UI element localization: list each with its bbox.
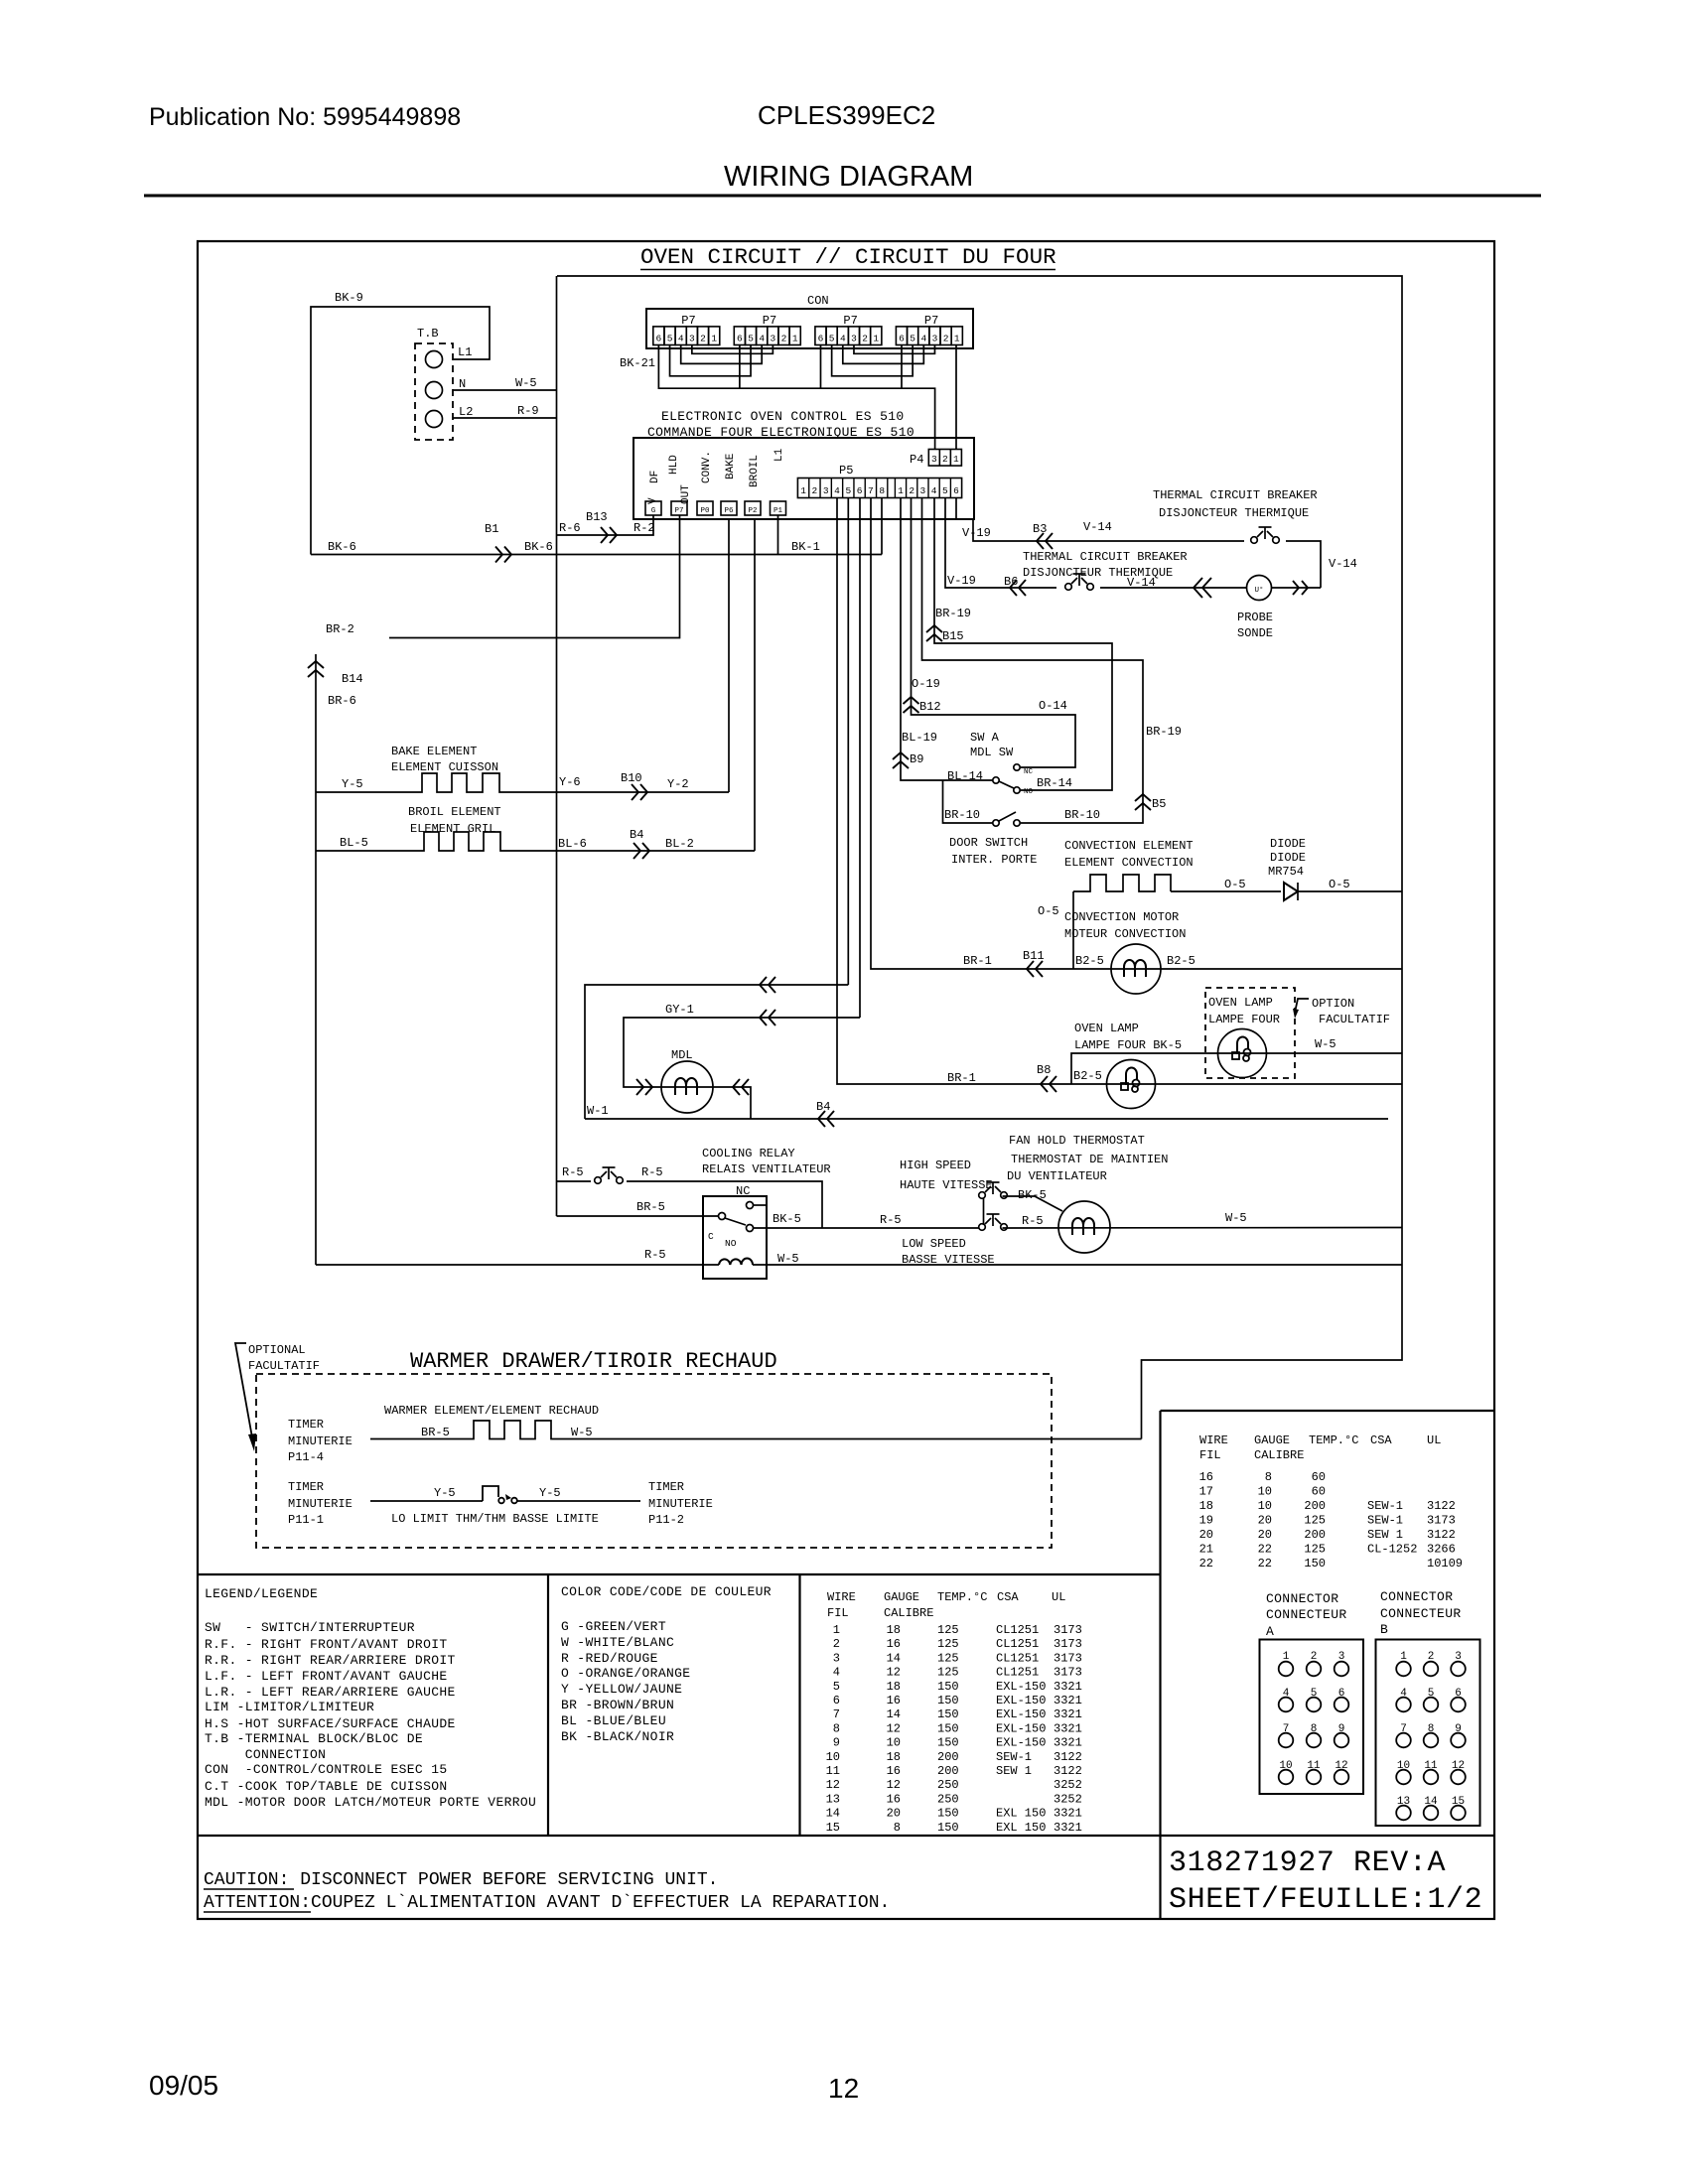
svg-text:DIODE: DIODE xyxy=(1270,851,1306,865)
wire probe to corner xyxy=(1272,587,1322,589)
svg-text:TIMER: TIMER xyxy=(288,1480,324,1494)
svg-text:Y-5: Y-5 xyxy=(342,777,363,791)
svg-text:A: A xyxy=(1266,1624,1274,1639)
wire group4 pin1 down to EOC P4 pin 1 xyxy=(955,345,957,450)
svg-text:CL1251: CL1251 xyxy=(996,1666,1039,1680)
svg-text:19: 19 xyxy=(1199,1514,1213,1528)
svg-text:3173: 3173 xyxy=(1427,1514,1456,1528)
svg-text:21: 21 xyxy=(1199,1543,1213,1557)
svg-text:12: 12 xyxy=(828,2073,859,2104)
svg-text:BR-2: BR-2 xyxy=(326,622,354,636)
EOC terminal box P7 xyxy=(671,501,687,515)
svg-text:BROIL ELEMENT: BROIL ELEMENT xyxy=(408,805,501,819)
svg-text:EXL-150: EXL-150 xyxy=(996,1736,1046,1750)
svg-text:O-14: O-14 xyxy=(1039,699,1067,713)
svg-text:G -GREEN/VERT: G -GREEN/VERT xyxy=(561,1619,666,1634)
svg-text:B4: B4 xyxy=(630,828,643,842)
svg-text:FACULTATIF: FACULTATIF xyxy=(248,1359,320,1373)
svg-text:P11-2: P11-2 xyxy=(648,1513,684,1527)
tables top border xyxy=(198,1573,1161,1575)
svg-text:FACULTATIF: FACULTATIF xyxy=(1319,1013,1390,1026)
svg-text:1: 1 xyxy=(833,1623,840,1637)
svg-text:4: 4 xyxy=(920,334,926,344)
svg-text:MR754: MR754 xyxy=(1268,865,1304,879)
svg-text:CAUTION: DISCONNECT POWER BEFO: CAUTION: DISCONNECT POWER BEFORE SERVICI… xyxy=(204,1870,718,1890)
svg-text:MINUTERIE: MINUTERIE xyxy=(288,1497,352,1511)
svg-text:CSA: CSA xyxy=(997,1590,1019,1604)
svg-text:1: 1 xyxy=(792,334,798,344)
svg-text:P7: P7 xyxy=(924,314,938,328)
svg-text:W-1: W-1 xyxy=(587,1104,609,1118)
svg-text:BK -BLACK/NOIR: BK -BLACK/NOIR xyxy=(561,1729,674,1744)
svg-text:V-19: V-19 xyxy=(947,574,976,588)
svg-text:2: 2 xyxy=(812,485,818,496)
svg-text:150: 150 xyxy=(937,1721,959,1735)
svg-text:B2-5: B2-5 xyxy=(1075,954,1104,968)
wire from P5-4 down to oven lamp BR-1 wire xyxy=(837,498,1402,1085)
svg-text:V-19: V-19 xyxy=(962,526,991,540)
svg-text:125: 125 xyxy=(1304,1514,1326,1528)
broil element wire up to EOC BROIL terminal xyxy=(754,519,756,851)
svg-text:GAUGE: GAUGE xyxy=(1254,1433,1290,1447)
svg-text:CALIBRE: CALIBRE xyxy=(1254,1448,1304,1462)
relay NO contact xyxy=(747,1225,754,1232)
svg-text:LAMPE FOUR: LAMPE FOUR xyxy=(1208,1013,1280,1026)
wire BK-21 bundle level B pin4-pin4 (groups 3-4) xyxy=(843,345,924,364)
svg-text:BL -BLUE/BLEU: BL -BLUE/BLEU xyxy=(561,1713,666,1728)
T.B terminal N xyxy=(426,382,443,399)
probe sensor xyxy=(1247,576,1272,601)
svg-text:4: 4 xyxy=(840,334,846,344)
svg-text:V-14: V-14 xyxy=(1329,557,1357,571)
svg-text:150: 150 xyxy=(1304,1557,1326,1570)
svg-text:BL-5: BL-5 xyxy=(340,836,368,850)
wire BR-5 from L2 bus to relay common xyxy=(557,1215,719,1217)
svg-text:CPLES399EC2: CPLES399EC2 xyxy=(758,100,935,130)
header rule xyxy=(144,195,1541,198)
svg-text:BR-19: BR-19 xyxy=(1146,725,1182,739)
svg-text:BL-2: BL-2 xyxy=(665,837,694,851)
T.B terminal L1 xyxy=(426,351,443,368)
svg-text:BK-1: BK-1 xyxy=(791,540,820,554)
svg-text:6: 6 xyxy=(737,334,743,344)
svg-text:3: 3 xyxy=(771,334,776,344)
svg-text:1: 1 xyxy=(954,334,960,344)
svg-text:R-5: R-5 xyxy=(1022,1214,1044,1228)
terminal block T.B (dashed) xyxy=(415,343,453,440)
svg-text:BAKE: BAKE xyxy=(725,453,737,479)
wire group2 pin6 drop xyxy=(739,345,741,389)
svg-text:Y-6: Y-6 xyxy=(559,775,581,789)
svg-text:CSA: CSA xyxy=(1370,1433,1392,1447)
svg-text:22: 22 xyxy=(1258,1557,1272,1570)
svg-text:5: 5 xyxy=(833,1680,840,1694)
svg-text:10109: 10109 xyxy=(1427,1557,1463,1570)
svg-text:3321: 3321 xyxy=(1054,1807,1082,1821)
svg-text:Y-2: Y-2 xyxy=(667,777,689,791)
svg-text:200: 200 xyxy=(1304,1499,1326,1513)
svg-text:B15: B15 xyxy=(942,629,964,643)
svg-text:200: 200 xyxy=(1304,1528,1326,1542)
wire O-5 to diode xyxy=(1171,890,1281,892)
svg-text:P7: P7 xyxy=(681,314,695,328)
svg-text:7: 7 xyxy=(868,485,874,496)
wire BK-9 loop from L1 around left side down to BK-6 run xyxy=(311,307,490,555)
svg-text:3: 3 xyxy=(931,454,937,465)
svg-text:W-5: W-5 xyxy=(1315,1037,1336,1051)
wire W-1 / B4 long run to W-5 bus xyxy=(585,1118,1388,1120)
svg-text:3252: 3252 xyxy=(1054,1778,1082,1792)
svg-text:C: C xyxy=(708,1231,714,1242)
svg-text:BK-5: BK-5 xyxy=(773,1212,801,1226)
svg-text:BR-19: BR-19 xyxy=(935,607,971,620)
wire from P5-8 down to BK-1 junction xyxy=(881,498,883,555)
svg-text:LAMPE FOUR BK-5: LAMPE FOUR BK-5 xyxy=(1074,1038,1182,1052)
motor M1: convection motor xyxy=(1111,944,1161,994)
svg-text:R-5: R-5 xyxy=(641,1165,663,1179)
svg-text:COLOR CODE/CODE DE COULEUR: COLOR CODE/CODE DE COULEUR xyxy=(561,1584,772,1599)
svg-text:BR-10: BR-10 xyxy=(944,808,980,822)
wire convection element left leg down xyxy=(1072,891,1074,969)
svg-text:3122: 3122 xyxy=(1054,1750,1082,1764)
color/wire-table divider xyxy=(798,1574,800,1836)
svg-text:B3: B3 xyxy=(1033,522,1047,536)
svg-text:22: 22 xyxy=(1258,1543,1272,1557)
svg-text:3: 3 xyxy=(851,334,857,344)
svg-text:16: 16 xyxy=(887,1764,901,1778)
wire W-5 neutral bus: top run, right vertical, bottom return to warmer drawer xyxy=(557,276,1402,1439)
wire R-5 to relay NO junction xyxy=(627,1181,822,1228)
svg-text:250: 250 xyxy=(937,1792,959,1806)
relay NC contact xyxy=(747,1202,754,1209)
svg-text:CONVECTION ELEMENT: CONVECTION ELEMENT xyxy=(1064,839,1194,853)
svg-text:3122: 3122 xyxy=(1054,1764,1082,1778)
SW A common contact xyxy=(993,777,999,783)
svg-text:Y-5: Y-5 xyxy=(539,1486,561,1500)
wire from P5 right pin3 to door switch return vertical xyxy=(922,498,1144,824)
svg-text:R-5: R-5 xyxy=(562,1165,584,1179)
svg-text:NO: NO xyxy=(1024,788,1034,796)
svg-text:BL-19: BL-19 xyxy=(902,731,937,745)
main diagram border xyxy=(198,241,1494,1919)
svg-text:B14: B14 xyxy=(342,672,363,686)
svg-text:GAUGE: GAUGE xyxy=(884,1590,919,1604)
wire group3 pin6 drop xyxy=(819,345,821,389)
svg-text:CON -CONTROL/CONTROLE ESEC 15: CON -CONTROL/CONTROLE ESEC 15 xyxy=(205,1762,448,1777)
svg-text:3: 3 xyxy=(920,485,926,496)
svg-text:318271927 REV:A: 318271927 REV:A xyxy=(1169,1846,1446,1880)
svg-text:LIM -LIMITOR/LIMITEUR: LIM -LIMITOR/LIMITEUR xyxy=(205,1700,374,1714)
svg-text:OVEN LAMP: OVEN LAMP xyxy=(1208,996,1273,1010)
relay common contact xyxy=(719,1213,726,1220)
wire BK-5 from relay NO to speed switches xyxy=(754,1227,980,1229)
EOC terminal box P6 xyxy=(721,501,737,515)
svg-text:G: G xyxy=(651,507,656,515)
svg-text:Publication No: 5995449898: Publication No: 5995449898 xyxy=(149,103,461,131)
svg-text:1: 1 xyxy=(800,485,806,496)
wire link between speed switch contacts xyxy=(983,1198,985,1225)
svg-text:TIMER: TIMER xyxy=(648,1480,684,1494)
wire from P5-5 down to junction xyxy=(847,498,849,986)
svg-text:BR-5: BR-5 xyxy=(636,1200,665,1214)
svg-text:3321: 3321 xyxy=(1054,1736,1082,1750)
svg-text:W-5: W-5 xyxy=(1225,1211,1247,1225)
legend/color divider xyxy=(547,1574,549,1836)
svg-text:P11-4: P11-4 xyxy=(288,1450,324,1464)
svg-text:SW A: SW A xyxy=(970,731,1000,745)
svg-text:CONV.: CONV. xyxy=(701,451,713,483)
wire low speed to fan motor xyxy=(1003,1227,1403,1230)
svg-text:B1: B1 xyxy=(485,522,498,536)
svg-text:ELECTRONIC OVEN CONTROL ES 510: ELECTRONIC OVEN CONTROL ES 510 xyxy=(661,409,905,424)
svg-text:150: 150 xyxy=(937,1807,959,1821)
svg-text:3266: 3266 xyxy=(1427,1543,1456,1557)
wire: left L2/R bus vertical xyxy=(556,276,558,1216)
svg-text:4: 4 xyxy=(678,334,684,344)
thermal circuit breaker SW (lower) xyxy=(1065,584,1072,591)
svg-text:125: 125 xyxy=(937,1623,959,1637)
svg-text:Y-5: Y-5 xyxy=(434,1486,456,1500)
wire BR-2 from EOC terminal P7 xyxy=(389,515,680,638)
svg-text:R-6: R-6 xyxy=(559,521,581,535)
svg-text:150: 150 xyxy=(937,1707,959,1721)
svg-text:W-5: W-5 xyxy=(515,376,537,390)
svg-text:CONNECTOR: CONNECTOR xyxy=(1266,1591,1338,1606)
wire BL-19 from P5 right pin1 to SW A common xyxy=(901,498,993,781)
svg-text:3173: 3173 xyxy=(1054,1637,1082,1651)
svg-text:1: 1 xyxy=(873,334,879,344)
high speed thermal switch xyxy=(979,1192,986,1199)
svg-text:P7: P7 xyxy=(674,507,683,515)
svg-text:BR-1: BR-1 xyxy=(963,954,992,968)
svg-text:R-5: R-5 xyxy=(880,1213,902,1227)
SW A NO contact xyxy=(1014,787,1020,793)
svg-text:MOTEUR CONVECTION: MOTEUR CONVECTION xyxy=(1064,927,1186,941)
svg-text:3321: 3321 xyxy=(1054,1721,1082,1735)
wire O-19/O-14 from P5 right pin2 to SW A NC contact xyxy=(912,498,1076,768)
svg-text:CON: CON xyxy=(807,294,829,308)
svg-text:UL: UL xyxy=(1052,1590,1065,1604)
wire convection motor to W-5 bus xyxy=(1073,968,1402,970)
svg-text:3: 3 xyxy=(689,334,695,344)
svg-text:B2-5: B2-5 xyxy=(1073,1069,1102,1083)
svg-text:CL1251: CL1251 xyxy=(996,1623,1039,1637)
wire from P5-7 down to convection motor BR-1 wire xyxy=(871,498,1073,970)
svg-text:U°: U° xyxy=(1254,586,1263,595)
svg-text:2: 2 xyxy=(862,334,868,344)
svg-text:DU VENTILATEUR: DU VENTILATEUR xyxy=(1007,1169,1107,1183)
svg-text:3: 3 xyxy=(833,1651,840,1665)
svg-text:18: 18 xyxy=(887,1680,901,1694)
svg-text:CONNECTEUR: CONNECTEUR xyxy=(1380,1606,1462,1621)
svg-text:2: 2 xyxy=(781,334,787,344)
svg-text:3122: 3122 xyxy=(1427,1528,1456,1542)
EOC terminal box P1 xyxy=(771,501,786,515)
svg-text:150: 150 xyxy=(937,1680,959,1694)
svg-text:COOLING RELAY: COOLING RELAY xyxy=(702,1147,795,1160)
svg-text:7: 7 xyxy=(833,1707,840,1721)
svg-text:125: 125 xyxy=(937,1637,959,1651)
svg-text:B: B xyxy=(1380,1622,1388,1637)
svg-text:14: 14 xyxy=(887,1707,901,1721)
thermal circuit breaker SW (upper) xyxy=(1251,537,1258,544)
svg-text:T.B: T.B xyxy=(417,327,439,341)
svg-text:200: 200 xyxy=(937,1764,959,1778)
wire MDL motor to B4 wire xyxy=(733,1079,749,1095)
svg-text:20: 20 xyxy=(1258,1528,1272,1542)
svg-text:BASSE VITESSE: BASSE VITESSE xyxy=(902,1253,995,1267)
lo limit thermostat switch xyxy=(483,1486,498,1501)
svg-text:L2: L2 xyxy=(459,405,473,419)
svg-text:6: 6 xyxy=(899,334,905,344)
wire high speed to fan motor xyxy=(1003,1196,1063,1211)
wire R-9 from L2 terminal xyxy=(453,417,557,419)
svg-text:EXL-150: EXL-150 xyxy=(996,1694,1046,1707)
svg-text:SEW 1: SEW 1 xyxy=(1367,1528,1403,1542)
svg-text:DISJONCTEUR THERMIQUE: DISJONCTEUR THERMIQUE xyxy=(1159,506,1309,520)
svg-text:R.R. - RIGHT REAR/ARRIERE DROI: R.R. - RIGHT REAR/ARRIERE DROIT xyxy=(205,1653,456,1668)
EOC terminal box G xyxy=(645,501,661,515)
svg-text:6: 6 xyxy=(953,485,959,496)
svg-text:5: 5 xyxy=(942,485,948,496)
svg-text:OPTION: OPTION xyxy=(1312,997,1354,1011)
svg-text:6: 6 xyxy=(818,334,824,344)
wire BK-21 bundle level C pin5-pin5 (groups 1-2) xyxy=(670,345,752,376)
svg-text:CONNECTOR: CONNECTOR xyxy=(1380,1589,1453,1604)
svg-text:DF: DF xyxy=(649,471,661,483)
svg-text:P5: P5 xyxy=(839,464,853,478)
svg-text:BROIL: BROIL xyxy=(749,455,761,487)
svg-text:RELAIS VENTILATEUR: RELAIS VENTILATEUR xyxy=(702,1162,831,1176)
svg-text:FIL: FIL xyxy=(1199,1448,1221,1462)
connector CON outline xyxy=(646,309,973,348)
svg-text:2: 2 xyxy=(909,485,914,496)
svg-text:CL-1252: CL-1252 xyxy=(1367,1543,1417,1557)
svg-text:MDL: MDL xyxy=(671,1048,693,1062)
svg-text:8: 8 xyxy=(833,1721,840,1735)
svg-text:4: 4 xyxy=(834,485,840,496)
svg-text:1: 1 xyxy=(898,485,904,496)
svg-text:3122: 3122 xyxy=(1427,1499,1456,1513)
svg-text:THERMAL CIRCUIT BREAKER: THERMAL CIRCUIT BREAKER xyxy=(1023,550,1188,564)
svg-text:EXL 150: EXL 150 xyxy=(996,1821,1046,1835)
svg-text:NC: NC xyxy=(736,1184,750,1198)
svg-text:THERMOSTAT DE MAINTIEN: THERMOSTAT DE MAINTIEN xyxy=(1011,1153,1168,1166)
svg-text:5: 5 xyxy=(829,334,835,344)
svg-text:TEMP.°C: TEMP.°C xyxy=(1309,1433,1358,1447)
wire BK-21 bundle level C pin5-pin5 (groups 3-4) xyxy=(832,345,914,376)
svg-text:L1: L1 xyxy=(458,345,472,359)
svg-text:12: 12 xyxy=(887,1666,901,1680)
svg-text:BR-6: BR-6 xyxy=(328,694,356,708)
svg-text:150: 150 xyxy=(937,1821,959,1835)
svg-text:DIODE: DIODE xyxy=(1270,837,1306,851)
svg-text:4: 4 xyxy=(759,334,765,344)
svg-text:CONVECTION MOTOR: CONVECTION MOTOR xyxy=(1064,910,1179,924)
svg-text:2: 2 xyxy=(700,334,706,344)
motor M3: cooling fan motor xyxy=(1058,1201,1110,1253)
svg-text:B13: B13 xyxy=(586,510,608,524)
svg-text:HAUTE VITESSE: HAUTE VITESSE xyxy=(900,1178,993,1192)
wire R-5 coil feed and W-5 out to bus xyxy=(316,1264,719,1266)
svg-text:ELEMENT CONVECTION: ELEMENT CONVECTION xyxy=(1064,856,1194,870)
wire from P5-6 down to GY-1 wire xyxy=(859,498,861,1019)
wire BK-21 bundle level D bus (pin6s) down to EOC P4 pin 3 xyxy=(658,345,934,450)
wire L1 terminal drop to BK-1 xyxy=(777,515,779,555)
svg-text:3: 3 xyxy=(823,485,829,496)
svg-text:11: 11 xyxy=(826,1764,840,1778)
svg-text:EXL-150: EXL-150 xyxy=(996,1721,1046,1735)
svg-text:B12: B12 xyxy=(919,700,941,714)
svg-text:14: 14 xyxy=(887,1651,901,1665)
svg-text:BR-1: BR-1 xyxy=(947,1071,976,1085)
svg-text:LOW SPEED: LOW SPEED xyxy=(902,1237,966,1251)
svg-text:3321: 3321 xyxy=(1054,1821,1082,1835)
svg-text:13: 13 xyxy=(826,1792,840,1806)
svg-text:200: 200 xyxy=(937,1750,959,1764)
svg-text:16: 16 xyxy=(1199,1470,1213,1484)
svg-text:P1: P1 xyxy=(774,507,783,515)
svg-text:3: 3 xyxy=(932,334,938,344)
wire BK-21 bundle level A pin3-pin3 (groups 1-2) xyxy=(692,345,774,354)
wire group4 pin6 drop xyxy=(901,345,903,389)
svg-text:P6: P6 xyxy=(724,507,734,515)
warmer drawer dashed box xyxy=(256,1374,1052,1548)
svg-text:CONNECTEUR: CONNECTEUR xyxy=(1266,1607,1347,1622)
svg-text:60: 60 xyxy=(1312,1485,1326,1499)
svg-text:T.B -TERMINAL BLOCK/BLOC DE: T.B -TERMINAL BLOCK/BLOC DE xyxy=(205,1731,423,1746)
svg-text:3321: 3321 xyxy=(1054,1694,1082,1707)
svg-text:5: 5 xyxy=(910,334,915,344)
svg-text:16: 16 xyxy=(887,1792,901,1806)
svg-text:ATTENTION:COUPEZ L`ALIMENTATIO: ATTENTION:COUPEZ L`ALIMENTATION AVANT D`… xyxy=(204,1893,890,1913)
wire BR-19 from P5 right pin4 to SW A NO contact (BR-14) xyxy=(934,498,1112,791)
svg-text:3173: 3173 xyxy=(1054,1666,1082,1680)
svg-text:V-14: V-14 xyxy=(1083,520,1112,534)
svg-text:18: 18 xyxy=(1199,1499,1213,1513)
svg-text:WIRE: WIRE xyxy=(827,1590,856,1604)
svg-text:N: N xyxy=(459,377,466,391)
wire stub P5 right pin6 xyxy=(955,498,957,520)
relay lever xyxy=(725,1218,746,1225)
svg-text:22: 22 xyxy=(1199,1557,1213,1570)
svg-text:1: 1 xyxy=(711,334,717,344)
svg-text:ELEMENT CUISSON: ELEMENT CUISSON xyxy=(391,760,498,774)
svg-text:HIGH SPEED: HIGH SPEED xyxy=(900,1159,971,1172)
connector P5 pin strip xyxy=(797,478,961,498)
svg-text:EXL-150: EXL-150 xyxy=(996,1707,1046,1721)
SW A lever xyxy=(999,781,1014,788)
svg-text:150: 150 xyxy=(937,1694,959,1707)
svg-text:8: 8 xyxy=(894,1821,901,1835)
svg-text:WIRING DIAGRAM: WIRING DIAGRAM xyxy=(724,161,973,193)
svg-text:8: 8 xyxy=(879,485,885,496)
svg-text:125: 125 xyxy=(937,1651,959,1665)
svg-text:5: 5 xyxy=(667,334,673,344)
svg-text:17: 17 xyxy=(1199,1485,1213,1499)
svg-text:1: 1 xyxy=(953,454,959,465)
EOC box outline xyxy=(633,438,974,519)
wire V-19 from EOC corner to upper thermal breaker xyxy=(973,519,1244,541)
wire-table/right-box divider xyxy=(1159,1411,1161,1919)
svg-text:10: 10 xyxy=(1258,1485,1272,1499)
svg-text:P7: P7 xyxy=(843,314,857,328)
svg-text:SEW-1: SEW-1 xyxy=(1367,1514,1403,1528)
svg-text:16: 16 xyxy=(887,1637,901,1651)
svg-text:5: 5 xyxy=(748,334,754,344)
svg-text:B8: B8 xyxy=(1037,1063,1051,1077)
svg-text:CL1251: CL1251 xyxy=(996,1637,1039,1651)
